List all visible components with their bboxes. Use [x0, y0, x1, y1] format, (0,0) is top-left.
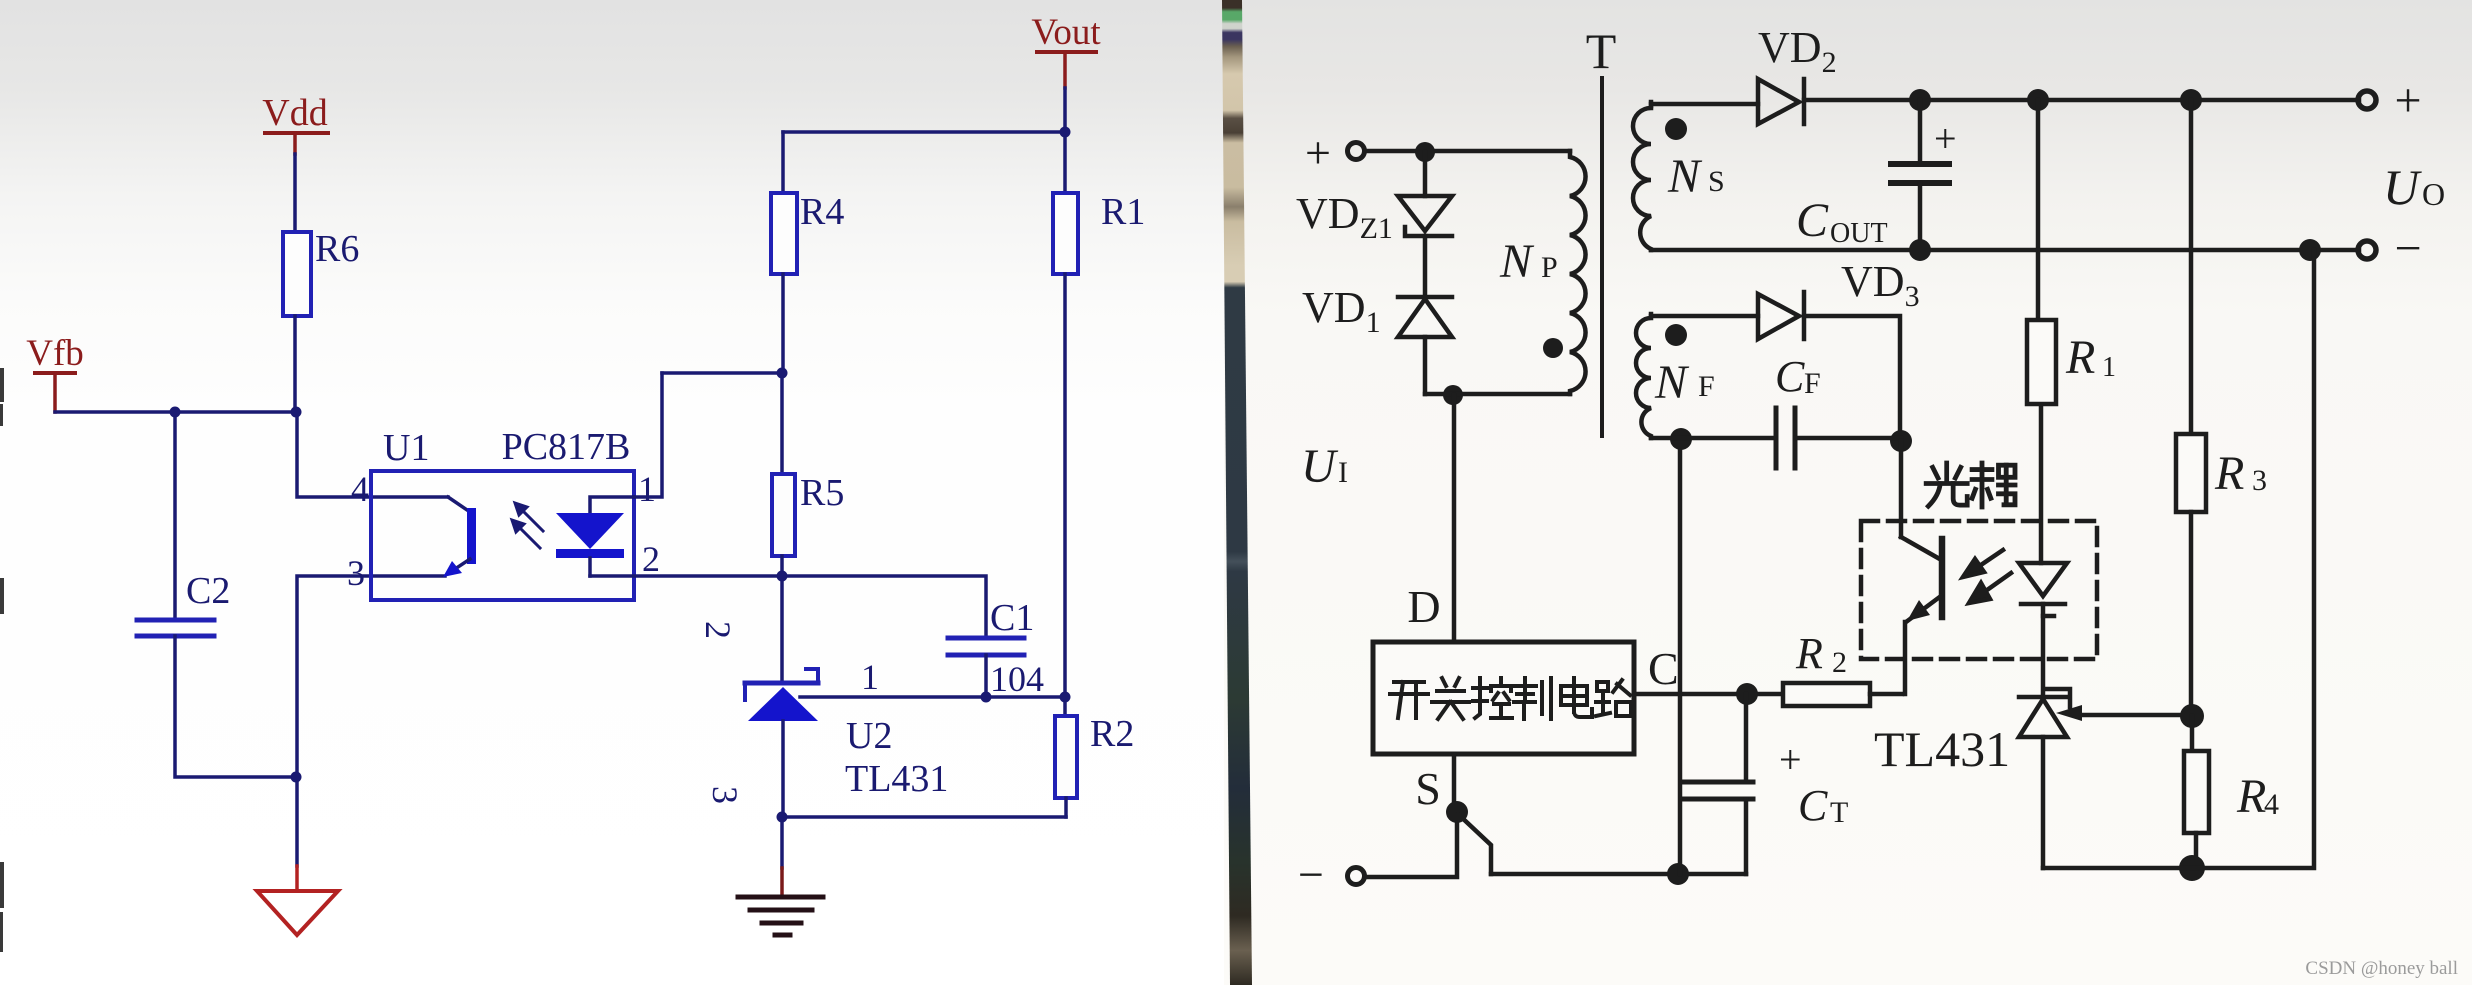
net label Vfb: [26, 333, 84, 375]
wire R2 top lead: [1063, 697, 1067, 716]
svg-text:N: N: [1667, 150, 1703, 203]
winding NS: [1633, 104, 1651, 250]
transistor U TL431 (right): [2019, 689, 2070, 868]
wire pin2 run to C1: [590, 576, 986, 637]
node R3 top: [2180, 89, 2202, 111]
wire minus rail: [1651, 248, 2359, 253]
node S: [1446, 801, 1468, 823]
svg-text:2: 2: [642, 539, 660, 579]
resistor R2: [1783, 683, 1870, 706]
left edge artifact marks: [0, 368, 4, 952]
svg-text:2: 2: [698, 621, 738, 639]
svg-text:N: N: [1654, 356, 1690, 409]
wire NF top to VD3: [1651, 314, 1758, 319]
node CT top: [1736, 683, 1758, 705]
svg-text:1: 1: [2102, 352, 2116, 383]
node R5-pin2 junction: [777, 571, 788, 582]
svg-text:1: 1: [638, 469, 656, 509]
svg-text:S: S: [1708, 165, 1725, 198]
wire pin1 up: [634, 373, 662, 497]
svg-text:−: −: [1298, 849, 1324, 900]
wire TL431 cathode lead: [780, 576, 784, 683]
svg-text:S: S: [1415, 763, 1441, 814]
svg-text:CSDN @honey ball: CSDN @honey ball: [2305, 958, 2458, 979]
transistor U2 TL431: [745, 669, 818, 721]
svg-text:N: N: [1499, 235, 1535, 288]
transistor Q (U1 phototransistor): [443, 497, 476, 577]
svg-text:Vdd: Vdd: [262, 92, 327, 134]
svg-text:C: C: [1775, 352, 1805, 401]
net label Vdd: [262, 92, 330, 135]
node bottom junction: [2179, 855, 2205, 881]
wire C2 bottom lead: [175, 636, 297, 777]
diode VD2: [1758, 79, 1804, 124]
svg-text:−: −: [2394, 222, 2421, 275]
svg-text:O: O: [2422, 176, 2445, 212]
ref arrow: [2078, 713, 2192, 718]
node R4 bottom: [777, 368, 788, 379]
optocoupler dashed box: [1861, 521, 2097, 659]
wire C pin: [1634, 692, 1783, 697]
svg-text:R: R: [2214, 447, 2244, 500]
svg-text:+: +: [1934, 116, 1957, 161]
svg-text:+: +: [2394, 74, 2421, 127]
svg-text:C1: C1: [990, 597, 1034, 639]
svg-text:U2: U2: [846, 715, 892, 757]
LED (opto): [2019, 404, 2067, 697]
resistor R1 (right): [2036, 100, 2041, 320]
resistor R4: [771, 193, 797, 274]
svg-text:R1: R1: [1101, 191, 1145, 233]
phase dot Np: [1543, 338, 1563, 358]
wire S lead: [1452, 754, 1457, 812]
wire R1 bottom long: [1063, 274, 1067, 697]
node Cout top: [1909, 89, 1931, 111]
svg-text:R: R: [2236, 770, 2266, 823]
svg-text:R4: R4: [800, 191, 844, 233]
op-amp U1 PC817B box: [371, 471, 634, 600]
glyph 光: [1926, 463, 1967, 506]
svg-text:TL431: TL431: [1874, 721, 2010, 777]
svg-text:T: T: [1830, 796, 1848, 829]
wire U1 pin3 to ground run: [297, 576, 445, 777]
label 光耦: [1926, 463, 2015, 507]
svg-text:4: 4: [351, 469, 369, 509]
capacitor Cout: [1918, 100, 1923, 163]
node NF return: [1667, 863, 1689, 885]
svg-text:104: 104: [990, 659, 1044, 699]
winding Np: [1570, 151, 1586, 394]
glyph 控: [1473, 678, 1512, 718]
svg-text:C: C: [1648, 643, 1679, 694]
svg-text:+: +: [1305, 127, 1331, 178]
svg-text:R6: R6: [315, 228, 359, 270]
svg-text:U: U: [1301, 440, 1339, 493]
glyph 路: [1596, 680, 1631, 716]
svg-text:+: +: [1779, 737, 1802, 782]
svg-text:3: 3: [705, 786, 745, 804]
wire to ground: [295, 777, 299, 866]
node ref junction: [2180, 704, 2204, 728]
wire VDZ1 to VD1: [1423, 236, 1428, 297]
phase dot NS: [1665, 118, 1687, 140]
node Cout bottom: [1909, 239, 1931, 261]
wire down to opto: [1899, 441, 1904, 537]
svg-text:Vfb: Vfb: [26, 333, 84, 374]
svg-text:T: T: [1586, 23, 1617, 79]
wire C2 top lead: [173, 412, 177, 619]
capacitor C1: [948, 638, 1024, 655]
wire Vfb horizontal: [55, 410, 297, 414]
wire R5 bottom lead: [780, 556, 784, 576]
wire node to U1 pin4: [297, 412, 448, 497]
control box 开关控制电路: [1373, 642, 1634, 754]
glyph 电: [1561, 678, 1592, 717]
resistor R5: [772, 474, 795, 556]
node gnd junction: [291, 772, 302, 783]
node R6 bottom junction: [291, 407, 302, 418]
wire R3 bottom: [2189, 512, 2194, 716]
wire R2 to opto emitter: [1870, 692, 1902, 697]
node R1 top: [2027, 89, 2049, 111]
node NF bottom: [1670, 428, 1692, 450]
minus output terminal: [2358, 241, 2376, 259]
wire VD1 to bottom corner: [1423, 337, 1428, 394]
net label Vout: [1031, 12, 1101, 54]
svg-text:1: 1: [861, 657, 879, 697]
wire anode to R2: [782, 815, 1066, 819]
wire S switch kink: [1458, 814, 1491, 874]
node U2 anode junction: [777, 812, 788, 823]
wire to VDZ1: [1423, 152, 1428, 196]
wire R6 to Vfb node: [293, 316, 297, 412]
diode VDZ1 (zener): [1398, 196, 1452, 236]
svg-text:R2: R2: [1090, 713, 1134, 755]
wire U2 anode: [781, 721, 785, 817]
glyph 制: [1514, 678, 1551, 719]
wire CF to node: [1795, 436, 1901, 441]
svg-text:4: 4: [2264, 788, 2279, 821]
left panel background: [0, 0, 1224, 985]
phase dot NF: [1665, 324, 1687, 346]
svg-text:P: P: [1541, 251, 1558, 284]
resistor R1: [1053, 193, 1078, 274]
svg-text:U1: U1: [383, 427, 429, 469]
wire U2 cathode to R2 node: [800, 695, 1065, 699]
svg-text:R5: R5: [800, 472, 844, 514]
svg-text:OUT: OUT: [1830, 218, 1888, 249]
diode VD1: [1398, 297, 1452, 337]
svg-text:C: C: [1798, 781, 1828, 830]
capacitor CF: [1776, 408, 1795, 468]
winding NF: [1636, 314, 1651, 438]
diode VD3: [1758, 292, 1804, 339]
wire top rail: [1804, 98, 2359, 103]
svg-text:PC817B: PC817B: [502, 426, 631, 468]
svg-text:3: 3: [347, 553, 365, 593]
right panel background: [1224, 0, 2472, 985]
wire Vdd to R6: [293, 135, 297, 154]
LED D (U1 emitter diode): [556, 497, 634, 576]
svg-text:3: 3: [2252, 464, 2267, 497]
transistor (opto phototransistor): [1901, 537, 1942, 694]
svg-text:TL431: TL431: [845, 758, 948, 800]
wire R2 bottom lead: [1064, 798, 1068, 817]
svg-text:I: I: [1338, 456, 1348, 489]
wire bottom rail left: [1365, 812, 1457, 877]
glyph 耦: [1972, 463, 2015, 507]
svg-text:Vout: Vout: [1031, 12, 1101, 53]
wire NS top to VD2: [1651, 102, 1758, 106]
ground (triangle): [257, 891, 338, 935]
resistor R2: [1055, 716, 1077, 798]
svg-text:C2: C2: [186, 570, 230, 612]
node VDz1 top: [1415, 142, 1435, 162]
wire R5 top lead: [780, 373, 784, 474]
node minus drop: [2299, 239, 2321, 261]
wire R4 bottom lead: [781, 274, 785, 373]
light arrows (opto): [1963, 550, 2011, 603]
node C2 top junction: [170, 407, 181, 418]
wire R1 top lead: [1063, 132, 1067, 193]
light arrows in U1: [512, 503, 543, 548]
wire VD3 to drop: [1804, 316, 1900, 441]
svg-text:D: D: [1407, 581, 1440, 632]
wire top rail to R4: [783, 130, 1065, 134]
svg-text:2: 2: [1832, 646, 1847, 679]
wire NF return vertical: [1678, 440, 1683, 874]
node Vout junction: [1060, 127, 1071, 138]
wire Np bottom: [1425, 392, 1570, 397]
wire R4 bottom: [2194, 833, 2199, 868]
video strip between panels: [1222, 0, 1252, 985]
resistor R6: [283, 232, 311, 316]
wire Vout stub: [1063, 54, 1067, 88]
svg-text:R: R: [2065, 331, 2095, 384]
node Np bottom: [1443, 385, 1463, 405]
node R1/R2 junction: [1060, 692, 1071, 703]
ground (earth): [738, 897, 823, 935]
wire Vfb stub: [53, 375, 57, 412]
wire R4 top lead: [781, 132, 785, 193]
wire to earth ground: [780, 817, 784, 868]
wire D lead: [1452, 395, 1457, 642]
svg-text:R: R: [1795, 629, 1823, 678]
svg-text:F: F: [1804, 367, 1821, 400]
+ output terminal: [2358, 91, 2376, 109]
wire bottom run to minus drop: [2043, 250, 2314, 868]
wire Cout bottom: [1918, 183, 1923, 250]
svg-text:U: U: [2383, 159, 2422, 215]
wire C1 bottom lead: [984, 655, 988, 697]
node CF right: [1890, 430, 1912, 452]
glyph 关: [1432, 678, 1469, 719]
wire pin1 node to R4: [662, 371, 782, 375]
capacitor CT: [1744, 694, 1749, 782]
wire CT bottom: [1744, 799, 1749, 874]
svg-text:F: F: [1698, 370, 1715, 403]
svg-text:C: C: [1796, 194, 1829, 247]
wire NF bottom to CF: [1651, 436, 1776, 441]
wire bottom rail right: [1491, 872, 1746, 877]
resistor R4 (right): [2190, 716, 2195, 751]
capacitor C2: [137, 620, 214, 636]
glyph 开: [1390, 682, 1428, 718]
node C1 bottom junction: [981, 692, 992, 703]
wire input to Np: [1365, 149, 1570, 154]
resistor R3: [2189, 100, 2194, 434]
